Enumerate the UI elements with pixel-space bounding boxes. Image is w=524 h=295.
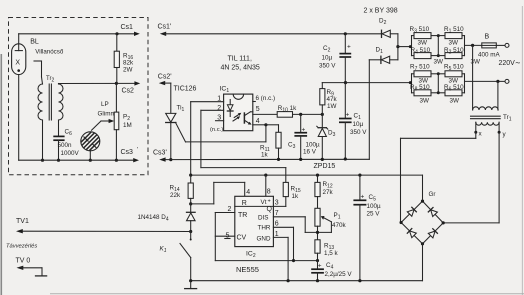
IC1 LED <box>227 100 233 117</box>
label C2 10µ 350V <box>319 45 336 70</box>
svg-text:2W: 2W <box>123 67 133 74</box>
scan artifact right border <box>521 6 523 295</box>
svg-text:Gr: Gr <box>429 191 436 198</box>
svg-text:25 V: 25 V <box>367 211 381 218</box>
label R15 1k <box>291 186 301 200</box>
svg-text:6: 6 <box>275 221 279 228</box>
wire TR CV trigger chain <box>215 213 317 261</box>
svg-text:X: X <box>15 60 20 67</box>
diode D1 <box>369 56 398 63</box>
svg-text:27k: 27k <box>323 189 334 196</box>
thyristor Ti1 <box>166 113 186 159</box>
diode D2 <box>382 30 398 37</box>
wire pin8 supply <box>265 175 267 196</box>
node LP bus <box>89 159 92 162</box>
svg-text:THR: THR <box>258 225 271 232</box>
arrow Cs1 internal <box>134 32 140 36</box>
label P2 1M <box>123 114 132 130</box>
terminal 220V live <box>505 43 509 47</box>
resistor R3 <box>412 33 439 39</box>
arrow Cs1' external <box>160 32 166 36</box>
dashed enclosure flash unit <box>9 18 149 175</box>
transformer Tr1 primary <box>473 107 499 110</box>
svg-text:Cs2': Cs2' <box>158 74 172 81</box>
svg-text:82k: 82k <box>123 60 134 67</box>
svg-text:1W: 1W <box>327 103 337 110</box>
wire D1 D2 anode junction <box>397 34 399 60</box>
bridge diode bottom-left <box>407 229 416 238</box>
label C5 100µ 25V <box>367 194 382 218</box>
node K1 rail <box>189 279 192 282</box>
node supply pin8 <box>264 174 267 177</box>
wire top group to fuse <box>465 44 482 46</box>
wire Q output to R15 <box>235 205 286 207</box>
svg-text:2: 2 <box>217 105 221 112</box>
lower group left vertical <box>411 74 413 93</box>
svg-text:4N 25, 4N35: 4N 25, 4N35 <box>221 65 260 72</box>
label C4 value <box>325 262 353 278</box>
node pin4 gate R11 <box>264 123 267 126</box>
node C3 top <box>299 113 302 116</box>
wire tube cathode down <box>18 75 20 161</box>
wire secondary y lead <box>498 122 500 132</box>
timer IC2 NE555 body <box>235 196 274 246</box>
node Ti1 cathode rail <box>169 158 172 161</box>
trigger electrode <box>34 61 42 77</box>
svg-text:350 V: 350 V <box>350 129 367 136</box>
node C4 rail <box>316 279 319 282</box>
node D3 rail <box>321 158 324 161</box>
svg-text:+: + <box>268 199 271 205</box>
label C3 100µ 16V <box>288 142 320 156</box>
resistor R1 <box>438 33 464 39</box>
node lower middle bottom <box>437 91 440 94</box>
svg-text:Glimm: Glimm <box>98 111 116 118</box>
svg-text:4: 4 <box>256 118 260 125</box>
wire Tr1 primary right up <box>497 81 499 110</box>
resistor R12 <box>315 175 320 208</box>
svg-text:GND: GND <box>257 235 271 242</box>
resistor R4 <box>412 53 439 59</box>
wire trigger to Tr2 left top <box>42 77 43 84</box>
svg-text:Villanócső: Villanócső <box>35 49 64 56</box>
top group left vertical <box>411 36 413 56</box>
terminal 220V neutral <box>505 79 509 83</box>
svg-text:TIC126: TIC126 <box>174 86 197 93</box>
capacitor C6 <box>53 136 64 160</box>
node y <box>498 131 501 134</box>
capacitor C5 <box>353 175 366 281</box>
top group right vertical <box>464 36 466 56</box>
svg-text:LP: LP <box>101 101 109 108</box>
wire DIS to P1 wiper <box>273 216 331 232</box>
svg-text:3W: 3W <box>434 58 444 65</box>
node R14 bottom pin4 D4 <box>189 202 192 205</box>
node Tr1 primary right tap <box>496 80 499 83</box>
svg-text:100µ: 100µ <box>306 142 321 149</box>
wire junction to top group <box>398 46 412 48</box>
top group middle vertical <box>437 36 439 56</box>
lower group right vertical <box>464 74 466 93</box>
node supply C5 <box>358 174 361 177</box>
capacitor C1 <box>339 83 352 159</box>
wire THR <box>273 227 293 260</box>
scan artifact left border <box>0 54 2 295</box>
wire top rail to D2 <box>165 33 382 35</box>
wire LP to P2 wiper <box>92 119 115 130</box>
label C1 10µ 350V <box>350 113 367 137</box>
wire rail up to D1 cathode <box>368 60 370 160</box>
node bridge bottom <box>421 242 424 245</box>
wire R9 top to node X <box>322 82 345 84</box>
svg-text:3W: 3W <box>420 97 430 104</box>
svg-text:3W: 3W <box>418 40 428 47</box>
node anode junction <box>396 45 399 48</box>
node middle bottom <box>437 54 440 57</box>
resistor R11 <box>266 125 281 160</box>
node X cap midpoint <box>344 81 347 84</box>
wire LP bottom to bus <box>89 151 91 160</box>
label R16 82k 2W <box>123 53 134 74</box>
resistor R10 <box>277 112 292 118</box>
wire bridge top to supply rail <box>191 175 423 201</box>
resistor R16 <box>114 34 119 84</box>
svg-text:CV: CV <box>237 235 247 242</box>
wire R10 to R9 node <box>293 113 323 115</box>
svg-text:Q: Q <box>267 206 273 213</box>
lower group middle vertical <box>437 74 439 93</box>
wire Cs2 line <box>59 82 138 84</box>
node x <box>474 131 477 134</box>
label R12 27k <box>323 181 334 196</box>
arrow TV1 <box>16 229 23 233</box>
wire TV1 line <box>21 230 191 232</box>
node bridge top <box>421 200 424 203</box>
svg-text:+: + <box>318 263 322 270</box>
svg-text:500n: 500n <box>58 142 73 149</box>
svg-text:+: + <box>302 127 306 134</box>
IC1 phototransistor <box>244 112 252 125</box>
wire pin4 reset path <box>191 182 245 204</box>
svg-text:1: 1 <box>275 231 279 238</box>
svg-text:Cs1: Cs1 <box>121 24 134 31</box>
capacitor C2 <box>339 34 351 83</box>
node GND rail <box>287 279 290 282</box>
svg-text:3W: 3W <box>471 58 481 65</box>
node R16 top <box>115 32 118 35</box>
svg-text:350 V: 350 V <box>319 63 336 70</box>
svg-text:DIS: DIS <box>258 214 269 221</box>
IC1 light arrows <box>233 113 241 121</box>
arrow Cs2 internal <box>134 81 140 85</box>
svg-text:TV1: TV1 <box>16 218 29 225</box>
fuse B <box>482 43 505 48</box>
capacitor C3 <box>294 114 307 159</box>
svg-text:2,2µ/25 V: 2,2µ/25 V <box>325 271 353 278</box>
node THR timing <box>292 259 295 262</box>
svg-text:1,5 k: 1,5 k <box>324 250 339 257</box>
wire Tr2 right bottom to C6 <box>58 120 60 136</box>
node D4 TV1 <box>189 230 192 233</box>
svg-text:Cs1': Cs1' <box>158 24 172 31</box>
wire pin2 to LED drive rail <box>201 110 286 182</box>
resistor R13 <box>315 240 320 261</box>
svg-text:5: 5 <box>256 106 260 113</box>
svg-text:': ' <box>137 148 138 154</box>
node supply R14 <box>189 174 192 177</box>
svg-text:1000V: 1000V <box>61 150 80 157</box>
svg-text:TIL 111,: TIL 111, <box>228 56 252 63</box>
arrow Cs3 internal <box>133 158 139 162</box>
wire gate line <box>186 125 266 142</box>
svg-text:NE555: NE555 <box>236 265 259 274</box>
label R14 22k <box>170 185 182 200</box>
bridge diode bottom-right <box>428 229 437 238</box>
node top group left <box>409 45 412 48</box>
wire bridge bottom to ground rail <box>191 244 423 281</box>
wire node X to lower resistor group <box>346 82 412 84</box>
node supply R12 <box>316 174 319 177</box>
ground symbol <box>185 281 197 289</box>
node middle top <box>437 34 440 37</box>
bridge diode top-left <box>407 207 416 216</box>
label R9 47k 1W <box>327 89 338 110</box>
svg-text:3W: 3W <box>449 40 459 47</box>
zener diode D3 ZPD15 <box>317 114 328 159</box>
label P1 470k <box>332 212 347 229</box>
svg-text:Cs2: Cs2 <box>122 88 135 95</box>
node bridge right <box>442 221 445 224</box>
wire Cs2' to Ti1 anode <box>164 83 171 113</box>
svg-text:TR: TR <box>238 212 247 219</box>
transformer Tr2 left winding <box>38 84 43 120</box>
svg-text:B: B <box>485 34 490 41</box>
svg-text:10µ: 10µ <box>322 55 333 62</box>
svg-text:Cs3: Cs3 <box>121 149 134 156</box>
svg-text:+: + <box>347 44 351 51</box>
node P1 foot <box>316 231 319 234</box>
arrow Cs2' external <box>159 81 165 85</box>
label TIL111 4N25 4N35 <box>221 56 260 72</box>
pin 5 label underlined <box>225 232 230 239</box>
wire Tr2 right top to Cs2 line <box>58 83 60 86</box>
terminal TV0 <box>17 266 47 276</box>
wire Tr2 left bottom to bus <box>42 120 44 160</box>
node C6 bus <box>57 159 60 162</box>
node P2 bus <box>115 159 118 162</box>
node lower group left <box>409 81 412 84</box>
svg-text:Vt: Vt <box>261 199 267 206</box>
resistor R15 <box>283 182 288 206</box>
wire secondary x lead <box>475 122 477 132</box>
transformer Tr1 core <box>471 116 501 119</box>
pin 3 stub <box>216 120 224 122</box>
svg-text:3: 3 <box>275 199 279 206</box>
svg-text:+: + <box>346 112 350 119</box>
arrow Cs3' external <box>159 157 165 161</box>
svg-text:2: 2 <box>228 206 232 213</box>
svg-text:Távvezérlés: Távvezérlés <box>6 244 37 250</box>
wire fuse to Tr1 primary left <box>472 45 474 110</box>
wire tube anode to top rail <box>18 34 20 44</box>
transformer Tr2 core <box>49 84 51 120</box>
svg-text:8: 8 <box>267 189 271 196</box>
svg-text:Cs3': Cs3' <box>153 150 167 157</box>
svg-text:7: 7 <box>275 210 279 217</box>
svg-text:400 mA: 400 mA <box>478 52 501 59</box>
svg-text:TV 0: TV 0 <box>16 258 31 265</box>
resistor R5 <box>438 71 464 77</box>
svg-text:(n.c.): (n.c.) <box>210 127 223 133</box>
svg-text:22k: 22k <box>170 192 181 199</box>
wire lower group to terminal 2 <box>465 80 505 82</box>
svg-text:1k: 1k <box>292 193 300 200</box>
svg-text:4: 4 <box>246 189 250 196</box>
svg-text:1k: 1k <box>261 152 269 159</box>
svg-text:220V∼: 220V∼ <box>499 60 521 67</box>
node R13 C4 <box>316 259 319 262</box>
wire rail Cs3' <box>164 158 369 160</box>
node C1 rail <box>344 157 347 160</box>
svg-text:ZPD15: ZPD15 <box>314 163 336 170</box>
svg-text:470k: 470k <box>332 222 347 229</box>
svg-text:47k: 47k <box>327 96 338 103</box>
bridge rectifier Gr frame <box>401 201 443 244</box>
label R13 1,5k <box>324 242 339 256</box>
svg-text:2 x BY 398: 2 x BY 398 <box>364 8 398 15</box>
pin 6 stub <box>253 101 256 103</box>
node Tr2 bus <box>41 159 44 162</box>
resistor R2 <box>438 53 464 59</box>
transformer Tr1 secondary <box>476 122 499 125</box>
capacitor C4 <box>311 261 324 281</box>
diode D4 <box>187 204 196 232</box>
resistor R9 <box>320 83 325 115</box>
node C3 rail <box>299 158 302 161</box>
potentiometer P2 <box>114 83 119 160</box>
neon lamp LP glimm <box>81 132 100 151</box>
node C5 rail <box>358 279 361 282</box>
svg-text:16 V: 16 V <box>303 149 317 156</box>
wire pin5 to R10 <box>253 113 277 115</box>
wire x to bridge left <box>401 132 476 222</box>
resistor R14 <box>188 175 193 204</box>
resistor R8 <box>412 90 439 96</box>
scan artifact bottom border <box>50 293 524 295</box>
node fuse branch <box>471 44 474 47</box>
node lower middle top <box>437 72 440 75</box>
svg-text:3W: 3W <box>450 97 460 104</box>
potentiometer P1 <box>315 208 320 240</box>
node C2 top <box>344 32 347 35</box>
wire pin4 <box>253 124 266 126</box>
node Cs2 P2 <box>115 82 118 85</box>
svg-text:6 (n.c.): 6 (n.c.) <box>256 95 276 102</box>
svg-text:BL: BL <box>30 39 39 46</box>
svg-text:+: + <box>361 194 365 201</box>
wire pin1 to +rail left <box>191 102 224 175</box>
wire top rail Cs1 <box>19 33 137 35</box>
node R9 D3 <box>321 113 324 116</box>
svg-text:100µ: 100µ <box>367 203 382 210</box>
transformer Tr2 right winding <box>59 84 64 120</box>
node R11 rail <box>277 158 280 161</box>
svg-text:10µ: 10µ <box>353 121 364 128</box>
bridge diode top-right <box>428 208 437 217</box>
switch K1 <box>180 232 192 281</box>
resistor R6 <box>438 90 464 96</box>
svg-text:1M: 1M <box>123 122 132 129</box>
label R11 1k <box>260 145 270 159</box>
resistor R7 <box>412 71 439 77</box>
wire y to bridge right <box>443 132 499 223</box>
wire bus Cs3 <box>19 159 136 161</box>
wire GND pin <box>273 237 288 280</box>
node bridge left <box>400 221 403 224</box>
optocoupler IC1 body <box>224 94 253 131</box>
flash tube BL envelope <box>12 44 26 75</box>
